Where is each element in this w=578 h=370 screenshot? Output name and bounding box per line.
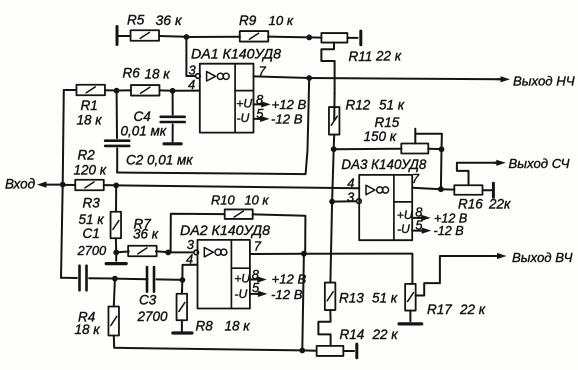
svg-text:4: 4: [186, 251, 193, 266]
svg-text:18 к: 18 к: [75, 322, 101, 337]
svg-text:Выход ВЧ: Выход ВЧ: [512, 250, 573, 265]
svg-text:22 к: 22 к: [459, 302, 486, 317]
svg-text:R9: R9: [239, 13, 257, 28]
svg-text:36 к: 36 к: [156, 12, 183, 28]
svg-text:-U: -U: [397, 222, 410, 236]
svg-text:18 к: 18 к: [145, 67, 171, 82]
svg-text:С1: С1: [83, 226, 100, 241]
svg-text:Выход НЧ: Выход НЧ: [513, 74, 575, 89]
svg-text:22 к: 22 к: [372, 327, 399, 342]
svg-text:22 к: 22 к: [375, 49, 402, 64]
svg-text:R12: R12: [346, 98, 371, 113]
svg-text:+12 В: +12 В: [272, 272, 307, 287]
svg-text:51 к: 51 к: [379, 98, 405, 113]
svg-text:10 к: 10 к: [269, 13, 294, 28]
svg-text:22к: 22к: [488, 197, 511, 212]
svg-text:51 к: 51 к: [79, 212, 105, 227]
svg-text:DA3 К140УД8: DA3 К140УД8: [341, 157, 427, 172]
svg-text:R14: R14: [340, 327, 365, 342]
svg-text:7: 7: [412, 171, 420, 186]
svg-text:-U: -U: [237, 111, 250, 125]
svg-text:4: 4: [347, 176, 354, 191]
svg-text:5: 5: [252, 280, 260, 295]
svg-text:7: 7: [259, 63, 267, 78]
svg-text:2700: 2700: [77, 243, 108, 258]
svg-text:R16: R16: [458, 197, 483, 212]
svg-text:R13: R13: [339, 291, 364, 306]
svg-text:18 к: 18 к: [225, 319, 251, 334]
svg-text:+U: +U: [397, 208, 413, 222]
svg-text:R1: R1: [81, 98, 98, 113]
svg-text:5: 5: [256, 106, 264, 121]
svg-text:-12 В: -12 В: [271, 287, 303, 302]
svg-text:5: 5: [415, 217, 423, 232]
svg-text:R10: R10: [211, 193, 235, 208]
svg-text:120 к: 120 к: [74, 163, 107, 178]
svg-text:8: 8: [256, 92, 264, 107]
svg-text:36 к: 36 к: [133, 227, 159, 242]
svg-text:С4: С4: [134, 109, 151, 124]
svg-text:-12 В: -12 В: [434, 224, 464, 238]
svg-text:С2 0,01 мк: С2 0,01 мк: [126, 153, 193, 168]
svg-text:R5: R5: [127, 13, 145, 28]
svg-text:R3: R3: [83, 196, 101, 211]
svg-text:3: 3: [189, 62, 197, 77]
svg-text:R11: R11: [349, 49, 373, 64]
svg-text:7: 7: [254, 238, 262, 253]
svg-text:R17: R17: [427, 302, 452, 317]
svg-text:-12 В: -12 В: [271, 112, 303, 127]
svg-text:Выход СЧ: Выход СЧ: [509, 156, 570, 171]
svg-text:3: 3: [187, 237, 195, 252]
svg-text:150 к: 150 к: [364, 129, 397, 144]
svg-text:R6: R6: [123, 66, 141, 81]
svg-text:DA1 К140УД8: DA1 К140УД8: [191, 47, 281, 63]
svg-text:3: 3: [347, 190, 355, 205]
svg-text:18 к: 18 к: [77, 113, 103, 128]
svg-text:R8: R8: [196, 319, 214, 334]
svg-text:0,01 мк: 0,01 мк: [121, 124, 167, 139]
svg-text:2700: 2700: [137, 309, 169, 324]
svg-text:+U: +U: [234, 272, 250, 286]
svg-text:+U: +U: [236, 96, 252, 110]
svg-text:+12 В: +12 В: [272, 97, 307, 112]
svg-text:10 к: 10 к: [245, 193, 270, 208]
svg-text:4: 4: [188, 77, 195, 92]
svg-text:Вход: Вход: [5, 177, 36, 192]
svg-text:R15: R15: [375, 115, 400, 130]
svg-text:R2: R2: [78, 148, 96, 163]
svg-text:51 к: 51 к: [372, 291, 398, 306]
svg-text:С3: С3: [139, 293, 157, 308]
svg-text:-U: -U: [234, 287, 247, 301]
